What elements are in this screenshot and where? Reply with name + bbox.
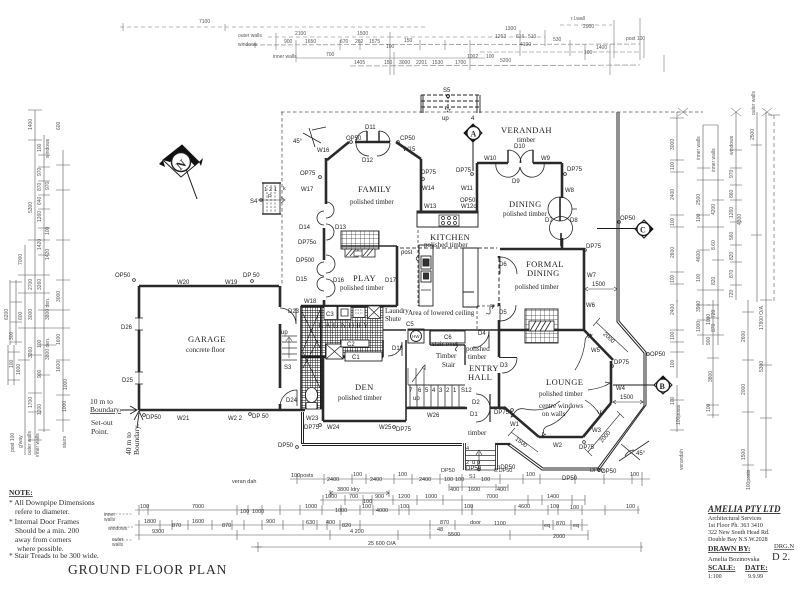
svg-text:2400: 2400 [327,477,339,483]
svg-text:polished timber: polished timber [515,283,559,291]
svg-text:100posts: 100posts [291,473,314,479]
svg-text:Amelia Bozinovska: Amelia Bozinovska [708,556,760,563]
svg-text:W9: W9 [541,156,551,162]
svg-text:700: 700 [326,52,335,58]
svg-text:7100: 7100 [199,19,210,25]
svg-text:concrete floor: concrete floor [186,346,226,354]
svg-text:W24: W24 [327,425,340,431]
svg-text:W2: W2 [553,443,563,449]
svg-text:W4: W4 [616,386,626,392]
svg-text:4: 4 [466,446,469,452]
svg-text:100: 100 [398,472,407,478]
svg-text:D17: D17 [385,278,397,284]
set-out point [90,397,143,455]
svg-text:100: 100 [670,359,676,368]
wall family west diagonal W16 [327,142,349,160]
svg-text:k: k [283,186,286,192]
svg-text:Area of lowered ceiling: Area of lowered ceiling [408,309,475,317]
svg-text:100: 100 [486,54,495,60]
svg-text:D18: D18 [392,346,404,352]
wall lounge W2 south [539,436,583,439]
svg-text:Architectural Services: Architectural Services [708,516,762,522]
svg-text:720: 720 [729,289,735,298]
svg-text:970: 970 [37,167,43,176]
svg-text:W5: W5 [591,348,601,354]
svg-text:5300: 5300 [759,361,765,372]
svg-text:100: 100 [37,143,43,152]
right dimension strings [670,108,780,478]
svg-text:Timber: Timber [436,352,457,360]
door D25 opening garage west [137,372,140,384]
svg-text:polished timber: polished timber [539,390,583,398]
svg-text:640: 640 [37,196,43,205]
svg-text:870: 870 [172,523,181,529]
svg-text:4300: 4300 [737,214,743,225]
svg-text:17800 O/A: 17800 O/A [759,305,765,330]
svg-text:400: 400 [497,487,506,493]
svg-text:1600: 1600 [56,361,62,372]
svg-text:2100: 2100 [295,31,306,37]
svg-text:polished timber: polished timber [350,198,394,206]
svg-text:A: A [471,130,477,139]
svg-text:3800 ldry: 3800 ldry [337,487,360,493]
svg-text:7000: 7000 [486,494,498,500]
svg-text:1000: 1000 [425,494,437,500]
wall lounge W5 diagonal [584,330,613,360]
svg-text:670: 670 [340,39,349,45]
svg-text:Shute: Shute [385,315,401,323]
svg-text:100: 100 [670,217,676,226]
svg-text:1500: 1500 [741,449,747,460]
title block [707,504,794,580]
svg-text:970: 970 [729,169,735,178]
laundry tub white boxes [324,306,381,320]
svg-text:timber: timber [468,353,487,361]
wall kitchen east upper [476,163,479,211]
svg-text:DRAWN BY:: DRAWN BY: [708,544,750,553]
svg-text:W25: W25 [379,425,392,431]
wall laundry north [301,305,397,308]
svg-text:DP50: DP50 [466,466,482,472]
svg-text:100: 100 [570,505,579,511]
wall garage south [139,409,305,412]
svg-text:C2: C2 [347,342,355,348]
svg-text:1650: 1650 [305,39,316,45]
svg-text:510: 510 [528,34,537,40]
svg-text:820: 820 [729,251,735,260]
svg-text:400: 400 [326,520,335,526]
svg-text:1700: 1700 [455,60,466,66]
wall kitchen bench top [417,211,478,227]
svg-text:D 2.: D 2. [772,552,790,563]
svg-text:100: 100 [444,477,453,483]
svg-text:DEN: DEN [355,382,374,392]
svg-text:W16: W16 [317,148,330,154]
svg-text:FAMILY: FAMILY [358,184,392,194]
wall entry north C6 [430,330,499,345]
svg-text:400: 400 [450,487,459,493]
svg-text:D24: D24 [286,398,298,404]
door D3 header [499,357,517,359]
svg-text:GARAGE: GARAGE [188,334,226,344]
svg-text:D25: D25 [122,378,134,384]
svg-text:D6: D6 [499,262,507,268]
marker B [613,376,672,394]
svg-text:DINING: DINING [509,199,542,209]
svg-text:DP50: DP50 [441,468,455,474]
svg-text:2500: 2500 [696,194,702,205]
svg-text:1:100: 1:100 [708,574,722,580]
porch nib wall right of S1 [495,443,510,445]
svg-text:polished timber: polished timber [503,210,547,218]
svg-text:100: 100 [455,477,464,483]
svg-text:1530: 1530 [432,60,443,66]
svg-text:PLAY: PLAY [353,273,376,283]
door D6 arc [500,257,517,274]
svg-text:2000: 2000 [741,384,747,395]
svg-text:2400: 2400 [670,304,676,315]
svg-text:W7: W7 [587,273,597,279]
svg-text:2900: 2900 [583,24,594,30]
svg-text:600: 600 [56,121,62,130]
svg-text:100posts: 100posts [746,469,752,490]
svg-text:OP50: OP50 [115,273,131,279]
svg-text:3000: 3000 [670,139,676,150]
svg-text:W14: W14 [422,186,435,192]
svg-text:1: 1 [453,388,457,394]
wall verandah north (dining) [477,162,562,165]
svg-text:windows: windows [45,138,51,158]
wall garage west [138,286,141,410]
svg-text:900: 900 [706,336,712,345]
right dimension labels (rotated) [670,91,765,490]
svg-text:veran dah: veran dah [232,479,256,485]
svg-text:870: 870 [729,269,735,278]
svg-text:AMELIA PTY LTD: AMELIA PTY LTD [707,504,781,514]
svg-text:inner walls: inner walls [711,148,717,172]
svg-text:1500: 1500 [620,395,634,401]
svg-text:W6: W6 [586,303,596,309]
svg-text:DP75: DP75 [421,170,437,176]
svg-text:8.60: 8.60 [711,240,717,250]
svg-text:Boundary.: Boundary. [132,424,141,455]
svg-text:outer walls: outer walls [751,91,757,115]
svg-text:DP500: DP500 [296,258,315,264]
wall bath strip east [320,306,322,409]
door D3 arc [502,358,517,373]
door D24 garage arc [280,390,297,406]
svg-text:3000: 3000 [56,291,62,302]
svg-text:W21: W21 [177,416,190,422]
svg-text:DP75: DP75 [456,168,472,174]
svg-text:W2 2: W2 2 [228,416,243,422]
svg-text:P: P [268,194,272,200]
svg-text:5: 5 [425,388,429,394]
svg-text:polished timber: polished timber [338,394,382,402]
svg-text:VERANDAH: VERANDAH [501,125,552,135]
marker A [464,124,482,171]
svg-text:1600: 1600 [192,519,204,525]
svg-text:600: 600 [18,311,24,320]
svg-text:3900: 3900 [696,301,702,312]
svg-text:D26: D26 [121,325,133,331]
wall den south [323,420,406,423]
cupboard C2 den [341,340,369,347]
svg-text:up: up [413,396,420,402]
svg-text:9.9.99: 9.9.99 [748,574,763,580]
svg-text:100: 100 [626,504,635,510]
svg-text:100: 100 [400,504,409,510]
svg-text:* All Downpipe Dimensions: * All Downpipe Dimensions [9,498,95,507]
svg-text:560: 560 [729,231,735,240]
dim 2000 lounge SE diagonal [593,318,628,352]
marker C [597,220,653,238]
svg-text:D11: D11 [365,125,376,131]
svg-text:DRG.N: DRG.N [774,543,794,550]
svg-text:D8: D8 [570,218,578,224]
svg-text:45°: 45° [636,451,646,457]
svg-text:900: 900 [375,494,384,500]
door D5 arc [500,305,516,321]
cupboard C1 den [345,352,382,361]
door D7 D8 arcs [548,197,577,246]
svg-text:D7: D7 [545,218,553,224]
svg-text:OP50: OP50 [650,352,666,358]
door D26 opening garage west [137,318,140,330]
svg-text:2400: 2400 [419,477,431,483]
svg-text:1300: 1300 [505,26,516,32]
svg-text:Set-out: Set-out [91,418,114,427]
svg-text:1002: 1002 [467,54,478,60]
svg-text:DATE:: DATE: [745,563,768,572]
svg-text:post: post [401,250,413,256]
svg-text:D15: D15 [296,277,308,283]
door D15 D16 arcs [317,255,335,297]
svg-text:9300: 9300 [152,529,164,535]
svg-text:D5: D5 [499,310,507,316]
svg-text:2400: 2400 [670,189,676,200]
svg-text:970: 970 [45,181,51,190]
svg-text:7000: 7000 [18,254,24,265]
svg-text:1500: 1500 [592,282,606,288]
svg-text:W23: W23 [306,416,319,422]
svg-text:W3: W3 [592,428,602,434]
dim 1500 lounge east [613,400,643,404]
verandah east boundary [509,112,644,468]
svg-text:100: 100 [706,403,712,412]
toilet white [306,388,318,410]
svg-text:7: 7 [409,388,413,394]
wall lounge W3 diagonal [583,403,611,437]
svg-text:900: 900 [266,519,275,525]
dashed eave boundary top [281,111,703,113]
stair S1 porch [464,443,498,471]
svg-text:DP50: DP50 [146,415,162,421]
svg-text:D3: D3 [500,363,508,369]
bathroom strip tiled hatch [301,357,322,409]
wall family bay top [355,141,390,144]
svg-text:DP75o: DP75o [298,240,317,246]
svg-text:eq: eq [573,523,579,529]
wall lounge west upper [498,330,501,357]
svg-text:3000: 3000 [399,60,410,66]
svg-text:100: 100 [386,44,395,50]
svg-text:stair over: stair over [432,340,459,348]
svg-text:2201: 2201 [416,60,427,66]
svg-text:walls: walls [104,517,116,523]
stair S3 garage [282,336,297,360]
svg-text:D12: D12 [362,158,374,164]
svg-text:W12o: W12o [461,204,477,210]
svg-text:post 100: post 100 [626,36,645,42]
svg-text:100: 100 [481,477,490,483]
svg-text:D23: D23 [288,309,300,315]
svg-text:S1: S1 [469,474,476,480]
north arrow [159,145,203,199]
svg-text:eq: eq [544,523,550,529]
svg-text:322 New South Head Rd.: 322 New South Head Rd. [708,530,770,536]
svg-text:45°: 45° [293,139,303,145]
svg-text:1260: 1260 [729,207,735,218]
svg-text:1000: 1000 [305,504,317,510]
svg-text:5200: 5200 [500,58,511,64]
svg-text:W18: W18 [304,299,317,305]
svg-text:48: 48 [437,527,443,533]
svg-text:4000: 4000 [376,508,388,514]
svg-text:100: 100 [240,509,249,515]
svg-text:1000: 1000 [325,494,337,500]
svg-text:W19: W19 [225,280,238,286]
svg-text:1000: 1000 [706,314,712,325]
cupboard C6 [430,331,465,343]
svg-text:100: 100 [630,472,639,478]
squiggle arrow lowered ceiling [486,305,494,314]
labels garage [115,273,578,482]
svg-text:100: 100 [464,504,473,510]
svg-text:D13: D13 [335,225,347,231]
svg-text:C5: C5 [406,322,414,328]
wall play north fireplace [341,245,397,247]
svg-text:windows: windows [108,526,128,532]
svg-text:DP75: DP75 [494,410,510,416]
svg-text:W13: W13 [424,204,437,210]
svg-text:C6: C6 [444,335,452,341]
svg-text:4: 4 [471,116,475,122]
svg-text:SCALE:: SCALE: [708,563,736,572]
svg-text:DP75: DP75 [614,360,630,366]
labels lounge [466,348,666,475]
svg-text:100: 100 [670,331,676,340]
svg-text:100: 100 [670,161,676,170]
wall lounge west lower [498,373,501,407]
svg-text:25 600 O/A: 25 600 O/A [368,541,396,547]
svg-text:D4: D4 [478,331,486,337]
svg-text:D14: D14 [299,225,311,231]
svg-text:W15: W15 [403,147,416,153]
svg-text:1200: 1200 [398,494,410,500]
wall formal dining west [498,256,501,330]
dashed boundary west vertical [281,112,283,286]
svg-text:inner walls: inner walls [35,433,41,457]
svg-text:OP50: OP50 [346,136,362,142]
bottom dimension labels [104,468,639,548]
svg-text:3800: 3800 [708,371,714,382]
svg-text:W10: W10 [484,156,497,162]
svg-text:D1: D1 [470,412,478,418]
svg-text:Point.: Point. [91,427,109,436]
dashed kitchen west boundary [417,230,419,306]
svg-text:inner walls: inner walls [273,54,297,60]
wall stair-hall east / entry west [464,345,466,365]
svg-text:1400: 1400 [596,45,607,51]
svg-text:polished: polished [466,345,490,353]
svg-text:100: 100 [9,359,15,368]
svg-text:timber: timber [468,429,487,437]
door D23 garage arc [280,308,296,324]
svg-text:NOTE:: NOTE: [9,488,33,497]
svg-text:OP50: OP50 [620,216,636,222]
svg-text:1st Floor Ph. 363 3410: 1st Floor Ph. 363 3410 [708,523,763,529]
svg-text:100: 100 [696,213,702,222]
svg-text:HW: HW [412,334,420,339]
wall den west [322,357,325,421]
svg-text:700: 700 [349,494,358,500]
stair S4 west [258,183,285,214]
svg-text:windows: windows [238,42,258,48]
svg-text:1400: 1400 [547,494,559,500]
svg-text:1200: 1200 [37,404,43,415]
svg-text:7000: 7000 [192,504,204,510]
svg-text:DP75: DP75 [579,445,595,451]
door D18 arc [388,342,402,356]
svg-text:DP 50: DP 50 [252,414,269,420]
dim 1500 lounge W1 diagonal [508,428,538,452]
svg-text:1600: 1600 [16,364,22,375]
top dimension block lines [120,18,664,75]
svg-text:100: 100 [353,472,362,478]
wall lounge W1 diagonal [504,407,539,437]
svg-text:B: B [660,382,666,391]
svg-text:2600: 2600 [670,247,676,258]
svg-text:S12: S12 [461,388,472,394]
svg-text:stairs: stairs [62,436,68,448]
svg-text:LOUNGE: LOUNGE [546,377,583,387]
svg-text:W17: W17 [301,187,314,193]
svg-text:1000: 1000 [62,401,68,412]
svg-text:verandah: verandah [679,449,685,470]
svg-text:870: 870 [440,520,449,526]
wall family east diagonal W15 [396,142,421,159]
wall den east corridor [405,340,407,421]
svg-text:2000: 2000 [599,430,613,445]
svg-text:* Internal Door Frames: * Internal Door Frames [9,517,79,526]
svg-text:up: up [281,330,288,336]
top dimension labels [199,16,645,66]
svg-text:DP75: DP75 [396,427,412,433]
left dimension strings [8,110,70,455]
wall hall upper north [408,330,430,345]
kitchen east bench [463,248,478,307]
svg-text:100: 100 [670,396,676,405]
svg-text:3000: 3000 [28,309,34,320]
kitchen west bench [419,245,433,306]
svg-text:S5: S5 [443,88,451,94]
svg-text:2500: 2500 [750,129,756,140]
dashed kitchen post line [400,247,497,249]
svg-text:up: up [442,116,449,122]
bottom dimension rows [105,472,650,552]
labels kitchen dining [424,144,636,316]
